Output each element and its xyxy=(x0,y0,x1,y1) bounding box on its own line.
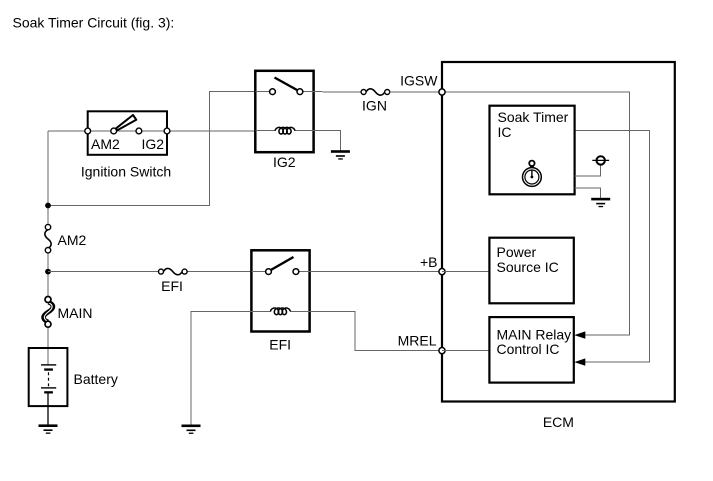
ECM box xyxy=(442,62,675,402)
relay EFI box xyxy=(251,250,309,331)
wire: EFI coil right to MREL node xyxy=(310,311,442,350)
battery plate short bottom xyxy=(44,391,53,393)
svg-text:MREL: MREL xyxy=(398,332,437,348)
wire: junction2 to EFI fuse xyxy=(48,271,159,273)
svg-text:Ignition Switch: Ignition Switch xyxy=(81,164,171,180)
svg-text:Control IC: Control IC xyxy=(497,341,560,357)
wire: soak timer pin to ground xyxy=(575,188,601,198)
wire: IGSW node to MAIN relay control (arrow) xyxy=(442,92,630,335)
terminal circle: ignition switch right xyxy=(164,128,170,134)
terminal circle: IG2 switch left xyxy=(270,89,276,95)
wire: junction1 branch right xyxy=(48,92,255,206)
inductor coil EFI xyxy=(271,308,291,315)
wire: ignition switch inner row xyxy=(88,130,167,132)
ground (IG2 relay coil) xyxy=(331,150,350,159)
wire: ignition switch left lead xyxy=(48,130,88,132)
arrowhead into MAIN Relay Control IC (top) xyxy=(574,331,585,338)
wire: IG2 coil row right xyxy=(295,130,314,132)
wire: EFI relay switch row left xyxy=(251,271,268,273)
stopwatch icon xyxy=(523,161,542,187)
wire: MREL node to MAIN Relay Control IC xyxy=(442,350,489,352)
node +B on ECM border xyxy=(439,269,445,275)
wire: EFI relay switch to +B node xyxy=(310,271,442,273)
wire: IG2 coil row left xyxy=(255,130,275,132)
svg-text:Battery: Battery xyxy=(74,371,118,387)
wire: left bus vertical (MAIN link to battery) xyxy=(47,324,49,350)
arrowhead into MAIN Relay Control IC (bottom) xyxy=(574,358,585,365)
terminal circle: AM2 fuse bottom xyxy=(45,248,50,253)
battery plate short top xyxy=(44,368,53,370)
svg-text:Source IC: Source IC xyxy=(497,259,559,275)
terminal circle with bar (soak timer) xyxy=(597,156,605,164)
ignition switch box xyxy=(88,111,167,155)
wire: EFI coil row left xyxy=(251,310,271,312)
svg-text:Soak Timer Circuit (fig. 3):: Soak Timer Circuit (fig. 3): xyxy=(13,15,175,31)
wire: IG2 coil to ground xyxy=(314,131,341,151)
terminal circle: IGN fuse left xyxy=(361,90,366,95)
Soak Timer IC box xyxy=(490,106,575,195)
ground (EFI relay coil) xyxy=(182,425,201,434)
svg-text:AM2: AM2 xyxy=(91,136,120,152)
battery box xyxy=(29,348,68,406)
terminal circle: AM2 fuse top xyxy=(45,224,50,229)
wire: EFI coil left to ground xyxy=(191,311,251,425)
terminal circle: IG2 switch right xyxy=(297,89,303,95)
svg-text:IGN: IGN xyxy=(362,98,387,114)
node IGSW on ECM border xyxy=(439,89,445,95)
svg-text:IG2: IG2 xyxy=(142,136,165,152)
IG2 relay switch blade xyxy=(275,78,298,91)
relay IG2 box xyxy=(255,71,313,152)
node: junction2 dot xyxy=(45,269,51,275)
wire: soak timer pin to terminal xyxy=(575,165,601,176)
svg-text:IG2: IG2 xyxy=(273,154,296,170)
wire: ignition switch to IG2 relay coil xyxy=(167,130,255,132)
wire: battery top lead xyxy=(47,349,49,365)
node MREL on ECM border xyxy=(439,348,445,354)
wire: EFI relay switch row right xyxy=(296,271,310,273)
wire: IG2 relay switch row left xyxy=(255,91,272,93)
wire: IG2 switch to IGN fuse xyxy=(314,91,362,93)
wire: +B node to Power Source IC xyxy=(442,271,489,273)
svg-text:EFI: EFI xyxy=(161,278,183,294)
fuse IGN xyxy=(366,89,385,95)
ground (battery) xyxy=(39,424,58,433)
wire: IGN fuse to ECM IGSW node xyxy=(390,91,442,93)
svg-text:ECM: ECM xyxy=(543,414,574,430)
wire: left bus vertical (AM2 fuse to MAIN link) xyxy=(47,249,49,300)
wire: EFI coil row right xyxy=(290,310,310,312)
terminal circle: ignition switch IG2 xyxy=(136,128,142,134)
terminal circle: EFI fuse right xyxy=(182,269,187,274)
terminal circle: IGN fuse right xyxy=(385,90,390,95)
inductor coil IG2 xyxy=(275,127,295,134)
terminal circle: EFI switch left xyxy=(266,269,272,275)
battery plate long top xyxy=(41,364,56,365)
ignition switch lever xyxy=(116,115,136,130)
svg-text:Power: Power xyxy=(497,244,537,260)
fuse AM2 xyxy=(45,230,51,249)
node: junction1 dot xyxy=(45,203,51,209)
battery dashed middle xyxy=(48,372,50,386)
battery plate long bottom xyxy=(41,387,56,388)
EFI relay switch blade xyxy=(271,257,294,270)
svg-text:AM2: AM2 xyxy=(58,232,87,248)
wire: soak timer out to MAIN relay control (arrow) xyxy=(575,130,650,362)
svg-text:+B: +B xyxy=(420,254,438,270)
MAIN Relay Control IC box xyxy=(489,317,573,383)
terminal circle: ignition switch left xyxy=(85,128,91,134)
wire: battery to ground xyxy=(47,394,49,425)
wire: left bus vertical (ign switch down to AM2 fuse) xyxy=(47,131,49,228)
terminal circle: MAIN link bottom xyxy=(45,321,51,327)
terminal circle: EFI switch right xyxy=(293,269,299,275)
svg-text:MAIN: MAIN xyxy=(58,305,93,321)
terminal circle: EFI fuse left xyxy=(159,269,164,274)
ground (soak timer) xyxy=(591,198,610,207)
wire: ignition switch internal contact row xyxy=(88,130,167,132)
fuse EFI xyxy=(163,268,182,274)
svg-text:IGSW: IGSW xyxy=(400,73,438,89)
terminal circle: ignition switch AM2 xyxy=(111,128,117,134)
svg-text:Soak Timer: Soak Timer xyxy=(498,109,569,125)
terminal circle: MAIN link top xyxy=(45,297,51,303)
wire: IG2 relay switch row right xyxy=(300,91,314,93)
Power Source IC box xyxy=(489,238,573,304)
fusible link MAIN xyxy=(44,302,53,322)
svg-text:IC: IC xyxy=(498,124,512,140)
svg-text:EFI: EFI xyxy=(269,337,291,353)
wire: EFI fuse to EFI relay xyxy=(187,271,252,273)
